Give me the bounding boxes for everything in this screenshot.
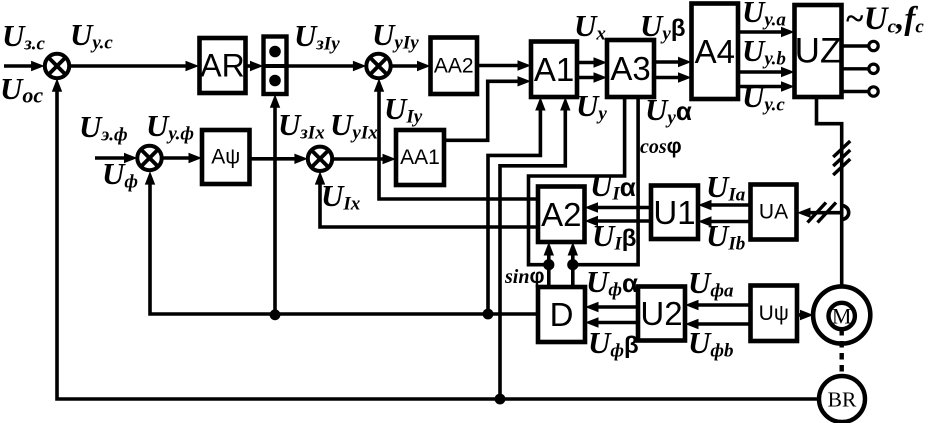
- label Ux: [574, 8, 606, 45]
- svg-text:UIy: UIy: [384, 91, 423, 128]
- wire cosphi D to A2: [568, 242, 578, 287]
- block A1 coordinate converter: [531, 42, 577, 98]
- block U2 converter: [638, 287, 685, 341]
- block UA current sensor: [751, 185, 797, 240]
- wire AA2 to A1: [477, 60, 531, 70]
- label Uy.b: [742, 33, 786, 70]
- summing junction W2 (Iy): [366, 54, 390, 78]
- wire A3 to A4 lower: [654, 72, 692, 82]
- label Ue.f: [79, 109, 128, 146]
- label Uy.s: [70, 17, 113, 54]
- label Uoc: [0, 71, 43, 108]
- limiter block (two dots): [264, 37, 287, 95]
- label UI-alpha: [590, 168, 636, 205]
- svg-text:~Uc,fc: ~Uc,fc: [845, 1, 924, 38]
- label ~Uc,fc: [845, 1, 924, 38]
- junction dot speed-A1: [495, 394, 506, 405]
- svg-text:Ux: Ux: [574, 8, 606, 45]
- svg-text:cosφ: cosφ: [640, 135, 682, 158]
- block AA1 current regulator x: [396, 130, 444, 185]
- terminal b: [842, 64, 879, 73]
- wire U2 to D lower: [585, 317, 638, 327]
- svg-text:UIb: UIb: [706, 218, 745, 255]
- wire W4 to AA1: [332, 154, 396, 164]
- svg-text:Uз.с: Uз.с: [2, 18, 46, 55]
- wire sinphi to A3: [529, 97, 625, 265]
- wire UZ to motor (3-phase): [817, 98, 842, 287]
- wire tap to UA: [797, 208, 842, 218]
- block Apsi flux regulator: [202, 130, 250, 184]
- junction dot cosphi: [567, 259, 578, 270]
- wire limiter to W2: [287, 61, 367, 71]
- block A3 rotator: [607, 40, 654, 97]
- svg-text:Uфβ: Uфβ: [588, 325, 639, 362]
- svg-text:Aψ: Aψ: [211, 146, 240, 169]
- svg-text:Uфa: Uфa: [688, 265, 734, 302]
- svg-text:AA1: AA1: [400, 146, 440, 169]
- wire Upsi to U2 lower: [685, 319, 751, 329]
- svg-text:M: M: [832, 304, 852, 329]
- wire Apsi to W4: [250, 154, 308, 164]
- svg-text:Uу: Uу: [576, 88, 607, 125]
- junction dot flux-A1: [483, 309, 494, 320]
- wire U1 to A2 upper: [585, 202, 652, 212]
- motor M outer circle: [813, 286, 870, 343]
- speed sensor BR: [819, 376, 865, 422]
- label UzIy: [294, 18, 340, 55]
- wire A1 to A3 lower: [577, 72, 607, 82]
- label Uy.a: [742, 0, 786, 31]
- svg-text:UIa: UIa: [706, 169, 746, 206]
- svg-text:A2: A2: [541, 196, 581, 233]
- svg-text:Uу.с: Uу.с: [70, 17, 113, 54]
- svg-text:Uψ: Uψ: [759, 302, 789, 325]
- label UzIx: [278, 107, 325, 144]
- svg-text:AR: AR: [200, 48, 244, 84]
- svg-text:UZ: UZ: [795, 32, 842, 71]
- svg-text:Uу.c: Uу.c: [742, 79, 785, 116]
- svg-text:Uуβ: Uуβ: [640, 8, 685, 45]
- label UIy: [384, 91, 423, 128]
- block A2 current rotator: [538, 187, 585, 243]
- svg-text:Uу.ф: Uу.ф: [146, 108, 194, 145]
- svg-text:sinφ: sinφ: [504, 265, 545, 288]
- tap hook to UA: [842, 206, 849, 220]
- label UyIy: [372, 17, 419, 54]
- wire UIy A2 to W2: [374, 78, 538, 199]
- wire U1 to A2 lower: [585, 216, 652, 226]
- two-phase slash marks on UA tap: [808, 203, 837, 223]
- svg-text:UA: UA: [759, 201, 788, 224]
- label Uy-alpha: [645, 92, 692, 129]
- wire UIx A2 to W4: [315, 171, 538, 227]
- label UyIx: [330, 107, 378, 144]
- wire A1 to A3 upper: [577, 57, 607, 67]
- wire UA to U1 lower: [698, 216, 751, 226]
- svg-text:UIβ: UIβ: [592, 218, 636, 255]
- wire flux input: [95, 153, 138, 163]
- svg-text:UуIy: UуIy: [372, 17, 419, 54]
- svg-text:UIα: UIα: [590, 168, 636, 205]
- label UIb: [706, 218, 745, 255]
- label Uf input: [102, 156, 138, 193]
- label UIa: [706, 169, 746, 206]
- label Uf-alpha: [586, 264, 638, 301]
- svg-text:UуIx: UуIx: [330, 107, 378, 144]
- svg-text:A1: A1: [534, 51, 574, 88]
- label Uy.f: [146, 108, 194, 145]
- summing junction W1 (speed): [45, 54, 69, 78]
- wire A1 bottom-right input: [500, 97, 571, 399]
- svg-text:Uуα: Uуα: [645, 92, 692, 129]
- svg-text:UIx: UIx: [321, 178, 361, 215]
- label sinphi: [504, 265, 545, 288]
- svg-text:A4: A4: [695, 33, 735, 70]
- svg-text:A3: A3: [610, 50, 650, 87]
- svg-text:Uу.a: Uу.a: [742, 0, 786, 31]
- block AA2 current regulator y: [431, 38, 478, 95]
- junction dot flux-limiter: [270, 309, 281, 320]
- motor M inner circle: [829, 303, 855, 329]
- terminal a: [842, 41, 879, 50]
- wire cosphi to A3: [573, 97, 638, 265]
- svg-text:U1: U1: [653, 194, 695, 231]
- summing junction W4 (Ix): [308, 147, 332, 171]
- wire A3 to A4 upper: [654, 57, 692, 67]
- label Uy-beta: [640, 8, 685, 45]
- wire UA to U1 upper: [698, 200, 751, 210]
- svg-text:Uос: Uос: [0, 71, 43, 108]
- wire sinphi D to A2: [544, 242, 554, 287]
- junction dot sinphi: [543, 259, 554, 270]
- dashed shaft motor to BR: [840, 329, 844, 375]
- wire A1 bottom-left input: [488, 97, 546, 314]
- svg-text:U2: U2: [640, 295, 682, 332]
- block AR speed regulator: [200, 38, 246, 93]
- wire speed feedback BR to W1: [52, 78, 820, 399]
- label Uz.s: [2, 18, 46, 55]
- svg-text:Uф: Uф: [102, 156, 138, 193]
- terminal c: [842, 87, 879, 96]
- svg-text:Uу.b: Uу.b: [742, 33, 786, 70]
- svg-text:Uэ.ф: Uэ.ф: [79, 109, 128, 146]
- wire AA1 to A1 input2: [444, 76, 531, 140]
- label UI-beta: [592, 218, 636, 255]
- wire W1 to AR: [69, 61, 199, 71]
- wire A4 to UZ c: [738, 81, 795, 91]
- block U1 converter: [651, 186, 698, 240]
- wire flux feedback D to W3: [145, 171, 538, 314]
- block D trig analyzer: [538, 287, 585, 342]
- svg-text:Uфα: Uфα: [586, 264, 638, 301]
- block A4 phase converter: [692, 4, 739, 100]
- label Uf-beta: [588, 325, 639, 362]
- svg-text:Uфb: Uфb: [688, 325, 734, 362]
- label Uy out: [576, 88, 607, 125]
- svg-text:BR: BR: [828, 388, 857, 412]
- wire AR to limiter: [246, 61, 264, 71]
- wire U2 to D upper: [585, 302, 638, 312]
- svg-text:AA2: AA2: [434, 54, 474, 77]
- label UIx: [321, 178, 361, 215]
- label Uf-b: [688, 325, 734, 362]
- node Uz.s input wire: [4, 61, 45, 71]
- wire A4 to UZ b: [738, 67, 795, 77]
- svg-text:UзIx: UзIx: [278, 107, 325, 144]
- wire Upsi to U2 upper: [685, 300, 751, 310]
- three-phase slash marks: [833, 141, 850, 175]
- svg-text:D: D: [550, 296, 574, 333]
- label Uf-a: [688, 265, 734, 302]
- block UZ frequency converter: [795, 5, 842, 97]
- wire limiter bottom input: [270, 94, 280, 314]
- wire W3 to Apsi: [162, 153, 202, 163]
- summing junction W3 (flux): [137, 146, 161, 170]
- svg-text:UзIy: UзIy: [294, 18, 340, 55]
- block Upsi flux sensor: [751, 286, 798, 342]
- wire Upsi to motor: [797, 310, 814, 320]
- label cosphi: [640, 135, 682, 158]
- wire W2 to AA2: [391, 61, 431, 71]
- wire A4 to UZ a: [738, 27, 795, 37]
- label Uy.c: [742, 79, 785, 116]
